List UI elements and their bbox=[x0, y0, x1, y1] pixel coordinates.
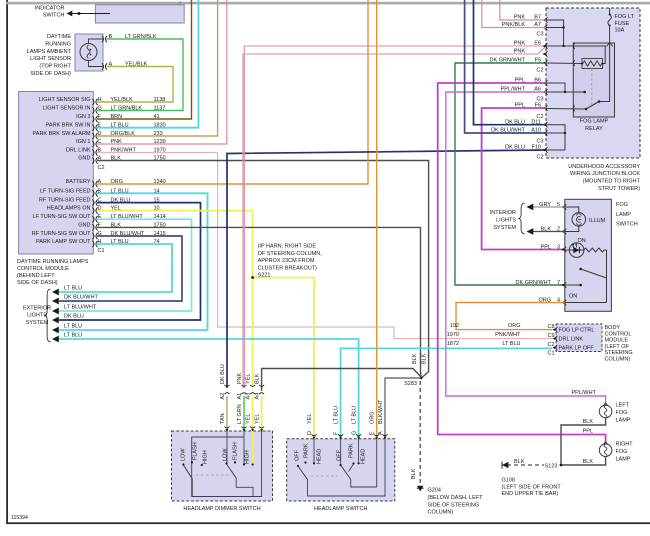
wire GRY (illumination feed, to interior lights) bbox=[531, 206, 565, 208]
svg-text:MODULE: MODULE bbox=[605, 338, 629, 344]
svg-text:APPROX 23CM FROM: APPROX 23CM FROM bbox=[258, 258, 315, 264]
wire DK BLU/WHT 1415 (to exterior lights) bbox=[59, 236, 182, 301]
svg-text:LIGHT SENSOR IN: LIGHT SENSOR IN bbox=[43, 106, 91, 112]
svg-text:S283: S283 bbox=[404, 381, 417, 387]
svg-text:LT GRN: LT GRN bbox=[237, 404, 243, 424]
wire YEL 10 (module D to S221, dimmer A3) bbox=[97, 211, 253, 388]
svg-text:ORG: ORG bbox=[370, 411, 376, 424]
svg-text:OF STEERING COLUMN,: OF STEERING COLUMN, bbox=[258, 251, 323, 257]
svg-text:FUSE: FUSE bbox=[615, 21, 630, 27]
svg-text:BLK: BLK bbox=[421, 353, 427, 364]
svg-text:BLK: BLK bbox=[412, 353, 418, 364]
svg-text:C3: C3 bbox=[536, 32, 543, 38]
svg-text:FOG LAMP: FOG LAMP bbox=[580, 119, 609, 125]
svg-text:LT BLU: LT BLU bbox=[502, 341, 520, 347]
wire LT BLU 74 (to exterior lights) bbox=[59, 244, 172, 292]
svg-text:STRUT TOWER): STRUT TOWER) bbox=[598, 186, 640, 192]
svg-text:SYSTEM: SYSTEM bbox=[26, 320, 49, 326]
svg-text:BLK: BLK bbox=[255, 373, 261, 384]
svg-text:(MOUNTED TO RIGHT: (MOUNTED TO RIGHT bbox=[583, 179, 641, 185]
svg-text:END UPPER TIE BAR): END UPPER TIE BAR) bbox=[502, 491, 559, 497]
svg-text:C1: C1 bbox=[98, 248, 105, 254]
wire ORG 1340 bbox=[97, 0, 368, 184]
svg-text:E6: E6 bbox=[534, 41, 541, 47]
svg-text:1970: 1970 bbox=[447, 332, 459, 338]
headlamp dimmer switch bbox=[172, 431, 273, 512]
wire YEL 10 branch (S221 to headlamp switch D) bbox=[253, 278, 314, 439]
svg-text:SWITCH: SWITCH bbox=[43, 12, 65, 18]
svg-text:FOG LP CTRL: FOG LP CTRL bbox=[559, 328, 595, 334]
svg-text:(LEFT SIDE OF FRONT: (LEFT SIDE OF FRONT bbox=[502, 484, 562, 490]
wire ORG (fog switch 4 to BCM C8) bbox=[456, 303, 565, 330]
svg-text:7: 7 bbox=[557, 280, 560, 286]
svg-text:LEFT: LEFT bbox=[616, 403, 630, 409]
svg-text:LOW: LOW bbox=[181, 448, 187, 461]
svg-text:LIGHT SENSOR SIG: LIGHT SENSOR SIG bbox=[39, 97, 91, 103]
svg-text:DK BLU: DK BLU bbox=[505, 145, 525, 151]
ambient light sensor (daytime running lamps) bbox=[27, 34, 157, 77]
svg-text:SYSTEM: SYSTEM bbox=[493, 225, 516, 231]
svg-text:HEADLAMP DIMMER SWITCH: HEADLAMP DIMMER SWITCH bbox=[183, 506, 260, 512]
svg-text:(BEHIND LEFT: (BEHIND LEFT bbox=[17, 273, 55, 279]
svg-text:LIGHT SENSOR: LIGHT SENSOR bbox=[30, 56, 71, 62]
dimmer lower wire segments bbox=[224, 396, 264, 432]
wire LT BLU 1830 bbox=[97, 0, 199, 128]
svg-text:GND: GND bbox=[78, 222, 90, 228]
svg-text:HIGH: HIGH bbox=[203, 450, 209, 464]
svg-text:PARK BRK SW IN: PARK BRK SW IN bbox=[46, 123, 91, 129]
wire DK BLU (junction block F10 to dimmer A2) bbox=[227, 150, 546, 388]
svg-text:SWITCH: SWITCH bbox=[616, 222, 638, 228]
svg-text:DK GRN/WHT: DK GRN/WHT bbox=[516, 280, 552, 286]
BCM wire labels bbox=[447, 323, 521, 347]
svg-text:LT BLU: LT BLU bbox=[64, 323, 82, 329]
fog switch pin labels bbox=[516, 202, 567, 306]
wire PNK/WHT 1970 (module B to BCM C9) bbox=[97, 153, 552, 339]
svg-text:DK BLU: DK BLU bbox=[64, 314, 84, 320]
fog switch internals: switch bbox=[565, 250, 607, 303]
right fog lamp bbox=[583, 429, 634, 463]
svg-text:C2: C2 bbox=[536, 155, 543, 161]
svg-text:BLK: BLK bbox=[583, 419, 594, 425]
svg-text:FOG: FOG bbox=[616, 202, 628, 208]
svg-text:YEL: YEL bbox=[307, 414, 313, 424]
exterior lights system arrows bbox=[23, 286, 99, 343]
wire BLK 1750 (module C1-F to S283) bbox=[97, 227, 421, 377]
svg-text:LT BLU: LT BLU bbox=[352, 406, 358, 424]
svg-text:INTERIOR: INTERIOR bbox=[490, 210, 516, 216]
svg-text:PARK LAMP SW OUT: PARK LAMP SW OUT bbox=[36, 239, 91, 245]
svg-text:HIGH: HIGH bbox=[245, 450, 251, 464]
fog lamp switch bbox=[565, 199, 638, 311]
svg-text:PPL: PPL bbox=[541, 244, 551, 250]
svg-text:SIDE OF STEERING: SIDE OF STEERING bbox=[428, 502, 480, 508]
wire BLK S283 to headlamp switch A bbox=[385, 378, 421, 439]
svg-text:BODY: BODY bbox=[605, 325, 621, 331]
junction block pin labels bbox=[490, 15, 548, 161]
wire LT BLU 14 (to exterior lights) bbox=[59, 193, 208, 330]
svg-text:DAYTIME RUNNING LAMPS: DAYTIME RUNNING LAMPS bbox=[17, 259, 89, 265]
wire BLK (illumination gnd, to interior lights) bbox=[531, 231, 565, 233]
svg-text:CONTROL: CONTROL bbox=[605, 331, 632, 337]
left fog lamp bbox=[572, 390, 631, 423]
svg-text:(BELOW DASH, LEFT: (BELOW DASH, LEFT bbox=[428, 495, 484, 501]
svg-text:HEAD: HEAD bbox=[317, 449, 323, 464]
svg-text:G: G bbox=[352, 431, 358, 435]
svg-text:BLK: BLK bbox=[583, 459, 594, 465]
svg-text:FOG: FOG bbox=[616, 449, 628, 455]
svg-text:ORG: ORG bbox=[508, 323, 521, 329]
fog lamp connector chevrons bbox=[603, 403, 609, 406]
fog switch internals: ON indicator LED bbox=[565, 238, 607, 257]
svg-text:LOW: LOW bbox=[223, 448, 229, 461]
svg-text:BLK/WHT: BLK/WHT bbox=[378, 399, 384, 424]
svg-text:INDICATOR: INDICATOR bbox=[35, 5, 65, 11]
svg-text:LAMP: LAMP bbox=[616, 212, 631, 218]
headlamp switch bbox=[287, 439, 395, 512]
svg-text:LIGHTS: LIGHTS bbox=[496, 218, 516, 224]
svg-text:LAMP: LAMP bbox=[616, 418, 631, 424]
svg-text:3: 3 bbox=[557, 244, 560, 250]
wire ORG (top) to headlamp switch E bbox=[376, 0, 378, 439]
wire LT GRN/BLK 1137 (sensor B to module G) bbox=[97, 39, 183, 111]
svg-text:GND: GND bbox=[78, 156, 90, 162]
svg-text:YEL: YEL bbox=[246, 374, 252, 384]
wire PPL/WHT A6 (to left fog lamp) bbox=[446, 92, 606, 406]
svg-text:10A: 10A bbox=[615, 27, 625, 33]
svg-text:WIRING JUNCTION BLOCK: WIRING JUNCTION BLOCK bbox=[570, 171, 640, 177]
svg-text:FOG: FOG bbox=[616, 410, 628, 416]
svg-text:DRL LINK: DRL LINK bbox=[559, 337, 584, 343]
svg-text:RIGHT: RIGHT bbox=[616, 441, 634, 447]
svg-text:CLUSTER BREAKOUT): CLUSTER BREAKOUT) bbox=[258, 265, 317, 271]
svg-text:PARK LP OFF: PARK LP OFF bbox=[559, 346, 595, 352]
svg-text:LT BLU/WHT: LT BLU/WHT bbox=[64, 304, 97, 310]
svg-text:FLASH: FLASH bbox=[233, 442, 239, 460]
wire BLK 1750 (module C2-A to S283) bbox=[97, 161, 429, 379]
svg-text:SIDE OF DASH): SIDE OF DASH) bbox=[17, 280, 58, 286]
wire PNK B7 bbox=[500, 0, 546, 20]
svg-text:BLK: BLK bbox=[411, 468, 417, 479]
svg-text:RUNNING: RUNNING bbox=[45, 41, 71, 47]
svg-text:RF TURN-SIG SW OUT: RF TURN-SIG SW OUT bbox=[32, 231, 92, 237]
fog lamp relay bbox=[573, 43, 614, 132]
svg-text:LT BLU: LT BLU bbox=[334, 406, 340, 424]
svg-text:PNK/WHT: PNK/WHT bbox=[495, 332, 521, 338]
ground G204 bbox=[411, 381, 483, 516]
splice S123 and ground G108 bbox=[502, 459, 563, 497]
svg-text:BATTERY: BATTERY bbox=[66, 179, 91, 185]
svg-text:IGN 1: IGN 1 bbox=[76, 139, 90, 145]
svg-text:G204: G204 bbox=[428, 488, 441, 494]
relay internal wiring bbox=[546, 20, 610, 150]
svg-text:C2: C2 bbox=[536, 68, 543, 74]
svg-text:DAYTIME: DAYTIME bbox=[47, 34, 71, 40]
wire BLK dimmer A4 to S283 bbox=[262, 369, 421, 392]
svg-text:192: 192 bbox=[450, 323, 459, 329]
svg-text:PPL: PPL bbox=[583, 429, 593, 435]
svg-text:YEL: YEL bbox=[255, 414, 261, 424]
wire PNK/BLK A7 bbox=[482, 0, 546, 28]
svg-text:PARK: PARK bbox=[304, 443, 310, 458]
wire PNK 1239 bbox=[97, 0, 227, 144]
headlamp switch connector labels bbox=[307, 399, 388, 440]
svg-text:F10: F10 bbox=[532, 145, 541, 151]
svg-text:COLUMN): COLUMN) bbox=[605, 357, 631, 363]
svg-text:LF TURN-SIG FEED: LF TURN-SIG FEED bbox=[40, 188, 91, 194]
wire LT BLU/WHT 1414 (to exterior lights) bbox=[59, 219, 192, 311]
fog switch internals: ILLUM bulb bbox=[565, 207, 606, 232]
wire BRN 41 bbox=[97, 0, 192, 119]
svg-text:CONTROL MODULE: CONTROL MODULE bbox=[17, 266, 69, 272]
svg-text:LT BLU: LT BLU bbox=[64, 286, 82, 292]
svg-text:OFF: OFF bbox=[337, 449, 343, 461]
svg-text:(TOP RIGHT: (TOP RIGHT bbox=[39, 64, 71, 70]
svg-text:LIGHTS: LIGHTS bbox=[27, 313, 47, 319]
svg-text:HEAD: HEAD bbox=[361, 449, 367, 464]
wire LT BLU 1872 (headlamp switch F to BCM C2) bbox=[341, 348, 552, 438]
wire PPL F6 (to fog lamp switch 3) bbox=[482, 108, 565, 250]
svg-text:C2: C2 bbox=[98, 165, 105, 171]
svg-text:OFF: OFF bbox=[295, 449, 301, 461]
svg-text:PNK: PNK bbox=[237, 372, 243, 384]
svg-text:PARK: PARK bbox=[349, 443, 355, 458]
svg-text:YEL: YEL bbox=[246, 414, 252, 424]
wire BLK left fog lamp to S123 bbox=[561, 418, 606, 465]
wire YEL/BLK 1138 (sensor A to module H) bbox=[97, 67, 173, 103]
wire DK BLU D11 bbox=[474, 0, 547, 125]
svg-text:COLUMN): COLUMN) bbox=[428, 510, 454, 516]
svg-text:(IP HARN, RIGHT SIDE: (IP HARN, RIGHT SIDE bbox=[258, 244, 317, 250]
wire DK BLU/WHT A10 bbox=[465, 0, 546, 133]
svg-text:(LEFT OF: (LEFT OF bbox=[605, 344, 630, 350]
svg-text:C1: C1 bbox=[547, 351, 554, 357]
svg-text:DK BLU/WHT: DK BLU/WHT bbox=[64, 295, 99, 301]
svg-text:FOG LT: FOG LT bbox=[615, 14, 635, 20]
svg-text:DK BLU: DK BLU bbox=[220, 364, 226, 384]
svg-text:S221: S221 bbox=[258, 273, 271, 279]
svg-text:DRL LINK: DRL LINK bbox=[66, 148, 91, 154]
wire ORG/BLK 233 bbox=[97, 0, 218, 136]
interior lights system label bbox=[490, 203, 525, 234]
underhood accessory wiring junction block bbox=[546, 8, 641, 192]
svg-text:LT BLU: LT BLU bbox=[64, 333, 82, 339]
dimmer switch internals bbox=[181, 431, 262, 497]
svg-text:PNK: PNK bbox=[514, 41, 526, 47]
svg-text:C8: C8 bbox=[547, 324, 554, 330]
svg-text:FLASH: FLASH bbox=[193, 442, 199, 460]
svg-text:LAMPS AMBIENT: LAMPS AMBIENT bbox=[27, 49, 72, 55]
body control module bbox=[547, 324, 632, 363]
svg-text:STEERING: STEERING bbox=[605, 350, 633, 356]
svg-text:ILLUM: ILLUM bbox=[589, 218, 606, 224]
svg-text:115394: 115394 bbox=[11, 515, 28, 521]
wire PNK (junction block E6 to dimmer A1) bbox=[244, 46, 546, 388]
headlamp switch internals bbox=[295, 439, 386, 496]
svg-text:SIDE OF DASH): SIDE OF DASH) bbox=[30, 71, 71, 77]
wire DK GRN/WHT F5 (to fog lamp switch 7) bbox=[455, 63, 565, 285]
svg-text:PARK BRK SW ALARM: PARK BRK SW ALARM bbox=[33, 131, 91, 137]
indicator switch (cut off at top) bbox=[35, 1, 184, 23]
wire BLK right fog lamp to S123 bbox=[561, 457, 606, 466]
dimmer connector labels bbox=[220, 364, 264, 424]
svg-text:1872: 1872 bbox=[447, 341, 459, 347]
wire DK BLU 15 (to exterior lights) bbox=[59, 203, 201, 320]
svg-text:TAN: TAN bbox=[220, 413, 226, 424]
svg-text:IGN 3: IGN 3 bbox=[76, 114, 90, 120]
svg-text:RELAY: RELAY bbox=[585, 126, 603, 132]
svg-text:PNK: PNK bbox=[514, 49, 526, 55]
svg-text:HEADLAMP SWITCH: HEADLAMP SWITCH bbox=[314, 506, 367, 512]
svg-text:C2: C2 bbox=[547, 342, 554, 348]
svg-text:RF TURN-SIG FEED: RF TURN-SIG FEED bbox=[39, 198, 91, 204]
daytime running lamps control module bbox=[17, 92, 166, 287]
svg-text:ON: ON bbox=[569, 294, 577, 300]
svg-text:HEADLAMPS ON: HEADLAMPS ON bbox=[47, 206, 91, 212]
svg-text:S123: S123 bbox=[545, 463, 558, 469]
svg-text:LAMP: LAMP bbox=[616, 456, 631, 462]
wire LT BLU park lamp (exterior lights to headlamp switch G) bbox=[59, 339, 359, 439]
wire PNK (second feed to E6) bbox=[243, 46, 546, 388]
svg-text:UNDERHOOD ACCESSORY: UNDERHOOD ACCESSORY bbox=[568, 164, 640, 170]
splice S221 bbox=[251, 244, 322, 279]
svg-text:PPL/WHT: PPL/WHT bbox=[572, 390, 597, 396]
splice S283 bbox=[404, 353, 427, 387]
fog lt fuse 10A bbox=[606, 8, 634, 46]
wire PPL B6 (to right fog lamp) bbox=[438, 83, 606, 445]
svg-text:G108: G108 bbox=[502, 478, 515, 484]
svg-text:BLK: BLK bbox=[514, 459, 525, 465]
svg-text:LF TURN-SIG SW OUT: LF TURN-SIG SW OUT bbox=[33, 214, 92, 220]
